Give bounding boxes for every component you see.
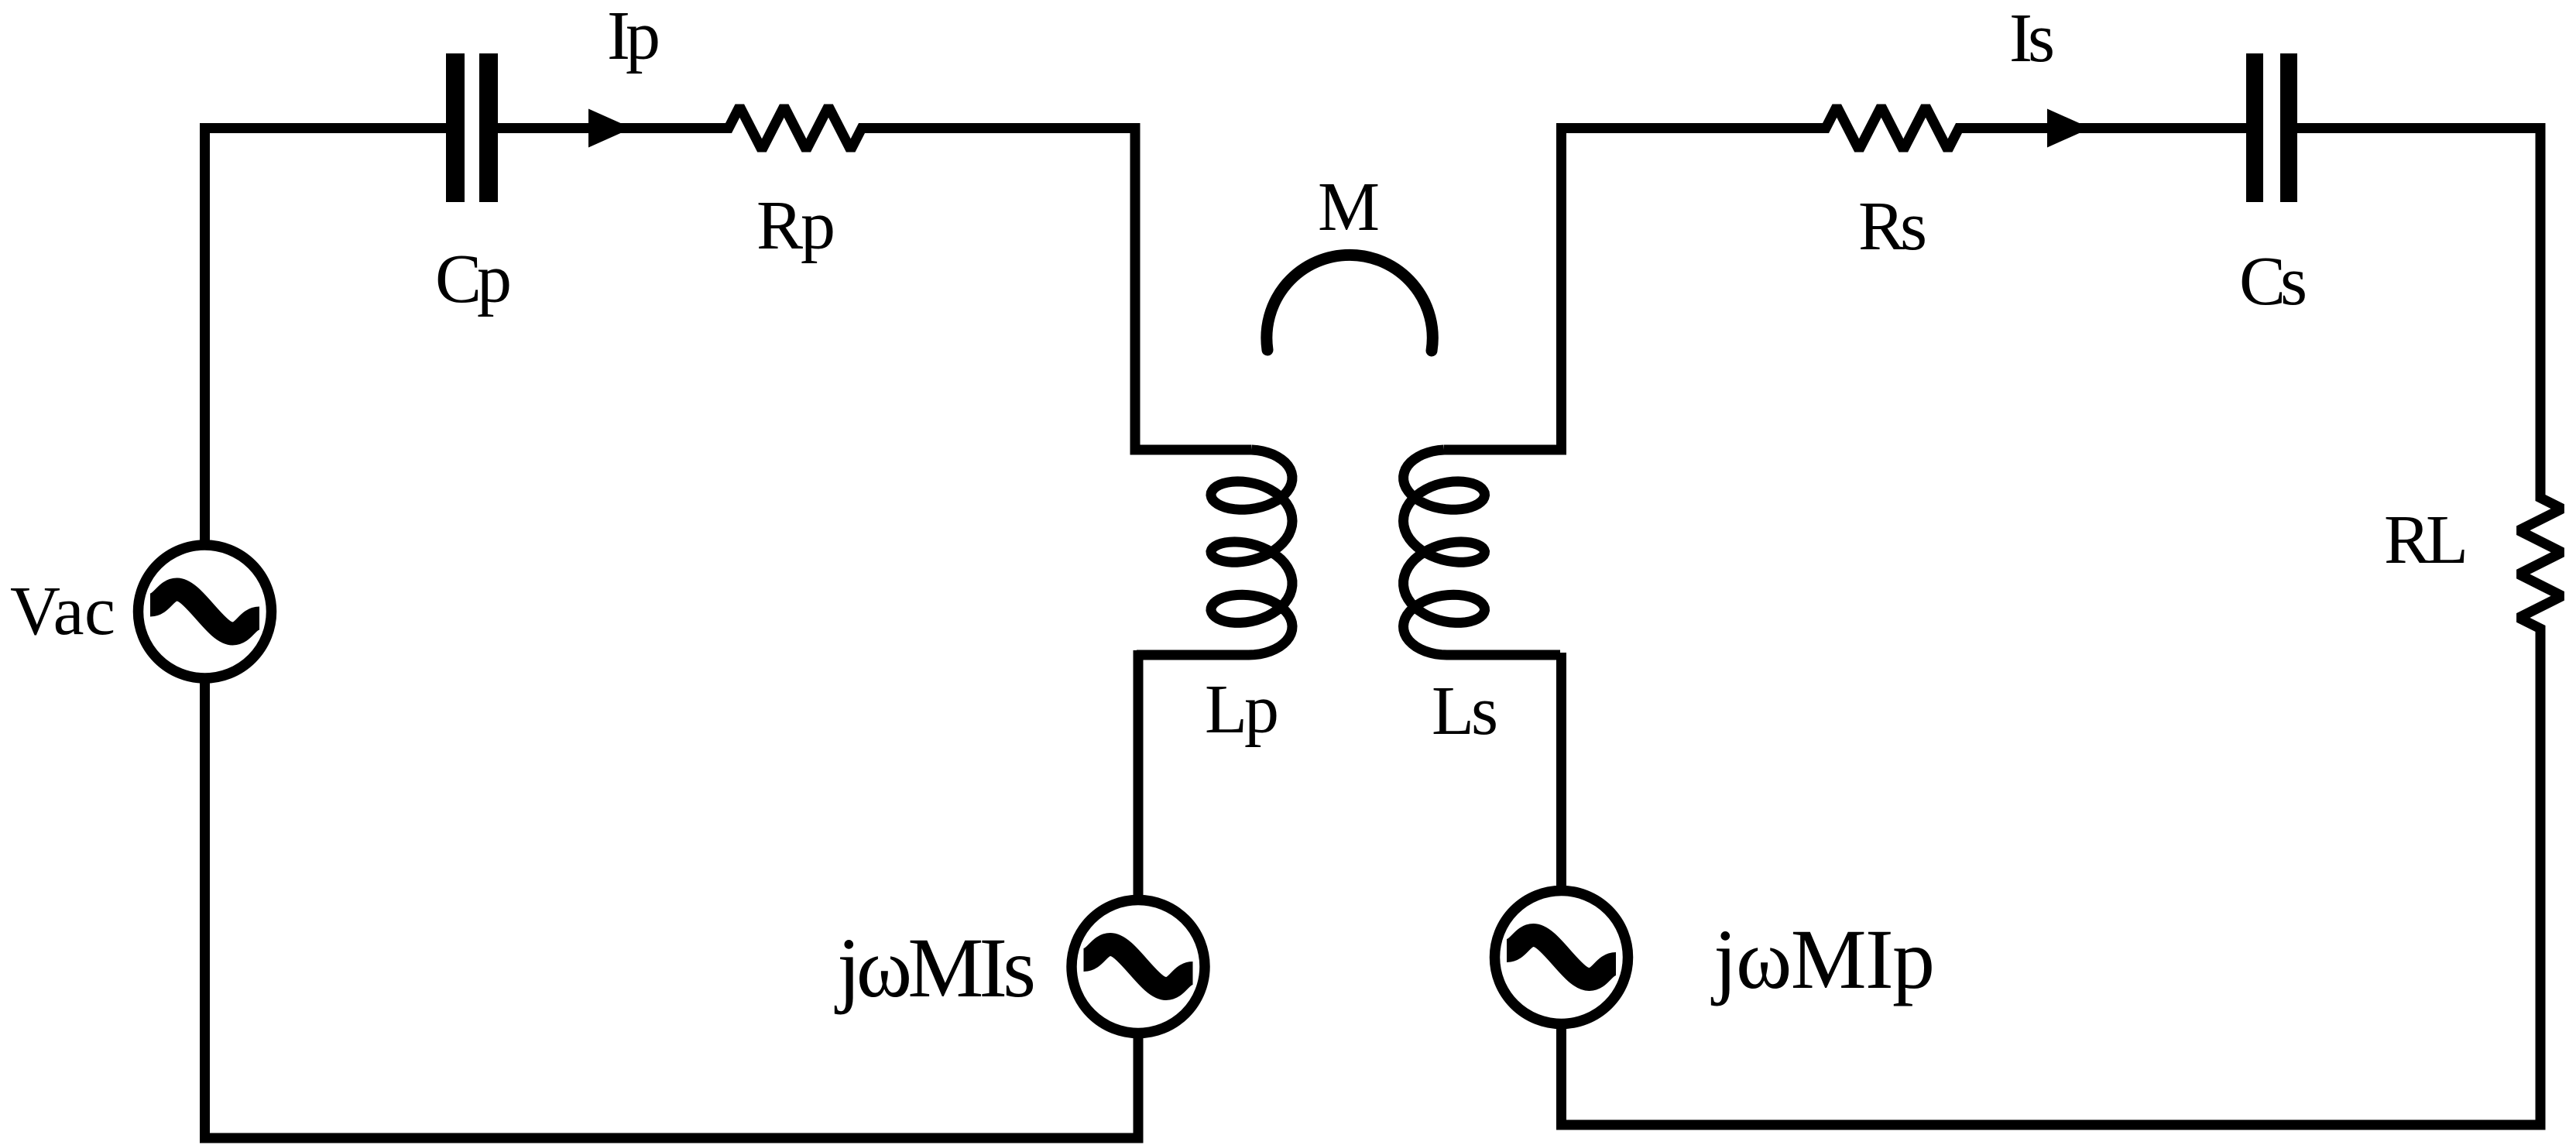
svg-text:Lp: Lp	[1205, 671, 1279, 748]
svg-text:Is: Is	[2009, 0, 2055, 77]
arrow Is current	[2047, 109, 2091, 148]
svg-text:jωMIs: jωMIs	[834, 920, 1036, 1015]
source V1 Vac circle	[139, 545, 272, 678]
mutual coupling arc M	[1267, 255, 1432, 351]
wire: right vertical from Ls entry up and to Rs	[1444, 129, 1826, 451]
sine wave jwMIp	[1507, 935, 1616, 979]
svg-text:Rs: Rs	[1858, 188, 1927, 265]
wire: Cp right plate to Rp	[498, 123, 729, 133]
wire: RL to bottom-right corner, bottom wire to jwMIp	[1562, 629, 2541, 1125]
svg-text:Ls: Ls	[1432, 673, 1498, 749]
inductor L1 Lp coil	[1137, 450, 1292, 655]
svg-text:jωMIp: jωMIp	[1710, 912, 1935, 1006]
svg-text:Vac: Vac	[10, 573, 115, 650]
svg-text:RL: RL	[2384, 502, 2468, 578]
wire: Rp to middle-left vertical down to Lp entry	[862, 129, 1252, 451]
wire: Cs to top-right corner down to RL	[2297, 129, 2540, 499]
svg-text:Ip: Ip	[607, 0, 660, 74]
sine wave jwMIs	[1084, 944, 1193, 989]
wire: Lp exit down to jwMIs source	[1134, 650, 1144, 901]
svg-text:Rp: Rp	[756, 187, 835, 264]
capacitor C2 Cs plates	[2246, 53, 2263, 202]
resistor R3 RL vertical	[2519, 475, 2562, 652]
wire: jwMIs bottom to bottom-left wire to left vertical up to Vac	[205, 681, 1139, 1138]
wire: Rs to Is arrow to Cs	[1959, 123, 2246, 133]
resistor R2 Rs	[1803, 107, 1982, 150]
arrow Ip current	[588, 109, 632, 148]
svg-text:M: M	[1318, 169, 1380, 245]
source circle jwMIp	[1495, 891, 1628, 1024]
inductor L2 Ls coil	[1404, 450, 1561, 655]
source circle jwMIs	[1072, 900, 1205, 1034]
svg-text:Cs: Cs	[2239, 243, 2307, 320]
wire: jwMIp top to Ls exit	[1556, 653, 1566, 890]
svg-text:Cp: Cp	[435, 241, 512, 317]
sine wave Vac	[150, 590, 259, 634]
wire: left vertical upper and top-left horizontal to Cp	[205, 129, 447, 543]
capacitor C1 Cp plates	[446, 53, 465, 202]
resistor R1 Rp	[705, 107, 885, 150]
